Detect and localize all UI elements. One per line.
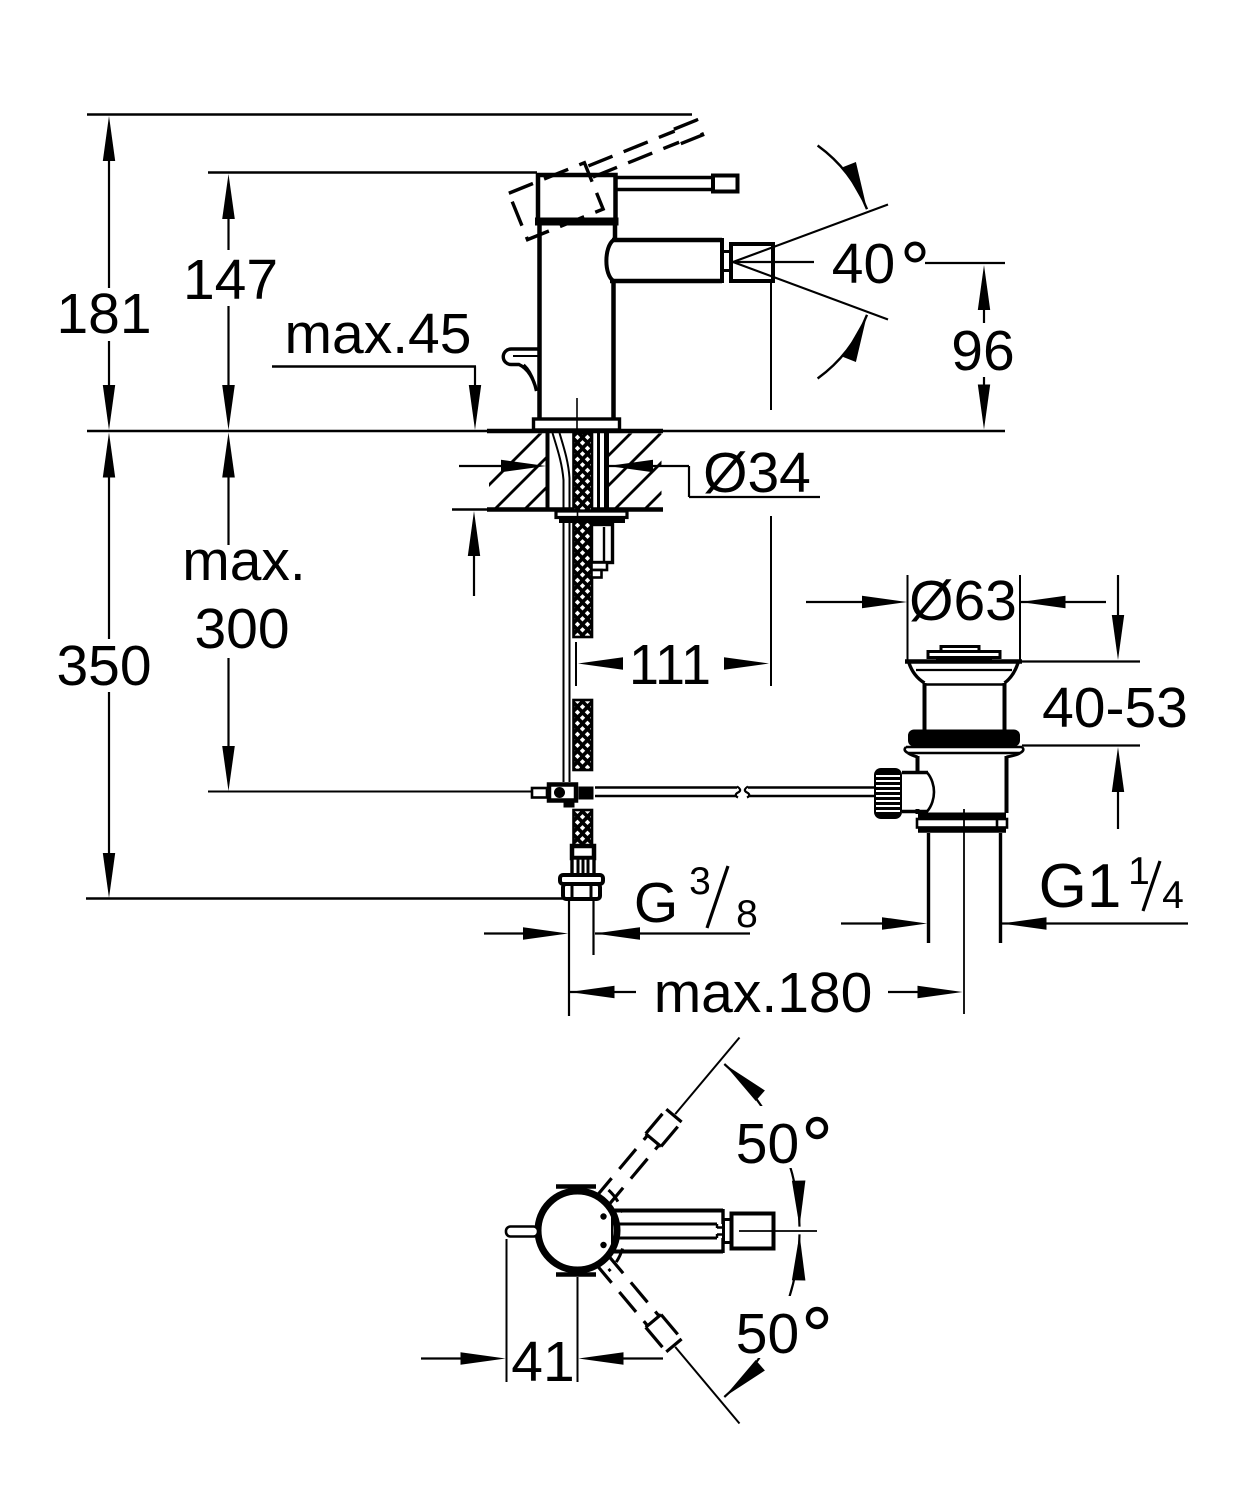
spout: [610, 238, 722, 283]
wire 147 reference line: [208, 171, 537, 173]
svg-text:4: 4: [1162, 874, 1184, 917]
hose ferrule: [572, 846, 594, 858]
svg-text:G1: G1: [1039, 852, 1122, 921]
aerator projection line: [770, 283, 772, 410]
drain lower bands: [917, 816, 1007, 831]
dimension 41: [421, 1239, 663, 1394]
deck clamping thickness arrow: [452, 510, 489, 597]
faucet centerline: [576, 398, 578, 431]
faucet cap (handle base): [535, 175, 619, 222]
dimension 350: [56, 433, 570, 899]
pop-up rod through deck: [553, 433, 570, 782]
dimension G1 1/4: [841, 850, 1188, 930]
50 degree label bottom: [726, 1296, 838, 1366]
svg-text:181: 181: [56, 282, 151, 346]
top view joint line: [611, 1212, 613, 1249]
svg-text:3: 3: [689, 860, 711, 903]
svg-text:96: 96: [951, 319, 1014, 383]
pull rod T-fitting: [532, 785, 594, 808]
svg-text:111: 111: [629, 633, 711, 697]
top view aerator neck: [724, 1220, 732, 1243]
top view dashed cap arcs: [609, 1190, 623, 1213]
svg-text:max.45: max.45: [285, 302, 472, 366]
hose ribbed collar: [572, 858, 594, 876]
wire top reference line (181 top): [87, 113, 692, 115]
top view centerline: [739, 1230, 817, 1232]
svg-text:350: 350: [56, 634, 151, 698]
dimension diameter 63: [806, 569, 1106, 660]
svg-text:50: 50: [736, 1112, 799, 1176]
svg-text:41: 41: [511, 1330, 574, 1394]
drain neck: [925, 683, 1005, 731]
dimension 40-53: [1013, 575, 1188, 829]
faucet base plate: [534, 419, 620, 430]
svg-text:max.: max.: [182, 529, 306, 593]
dimension max.45: [272, 302, 481, 430]
hose hex nut G3/8: [560, 875, 603, 899]
mounting nut: [556, 511, 627, 523]
svg-text:Ø34: Ø34: [703, 441, 811, 505]
drain flange: [905, 662, 1022, 685]
drain seal ring: [905, 730, 1024, 754]
rod guide block: [592, 525, 613, 578]
svg-text:50: 50: [736, 1302, 799, 1366]
drain tail pipe: [929, 809, 1001, 1014]
horizontal pull rod: [595, 787, 875, 798]
svg-text:147: 147: [183, 248, 278, 312]
aerator neck: [722, 252, 731, 271]
svg-text:300: 300: [194, 597, 289, 661]
50 degree label top: [726, 1106, 838, 1176]
dimension 96: [951, 265, 1014, 430]
drain body: [908, 753, 1020, 814]
pop-up rod knob on body: [503, 349, 539, 391]
40 degree arc arrows: [818, 146, 867, 379]
50 degree arcs with arrows: [724, 1064, 805, 1397]
dimension max.300: [182, 433, 533, 792]
deck surface line: [87, 430, 1005, 432]
dimension diameter 34: [459, 441, 820, 505]
dimension max.180: [570, 961, 963, 1025]
top view dashed lever up: [595, 1109, 682, 1208]
svg-text:40-53: 40-53: [1042, 676, 1188, 740]
top view pop-up rod pin: [506, 1227, 538, 1237]
hose end tube: [569, 901, 594, 1016]
deck cross-section with hatching: [462, 430, 754, 512]
drain push button: [928, 647, 1000, 662]
svg-text:8: 8: [736, 893, 758, 936]
dimension G3/8: [484, 860, 758, 940]
svg-text:G: G: [634, 871, 678, 935]
svg-text:40: 40: [832, 232, 895, 296]
svg-text:1: 1: [1128, 850, 1150, 893]
dashed handle (raised position): [509, 118, 715, 240]
top view spout: [614, 1209, 739, 1253]
svg-text:max.180: max.180: [654, 961, 873, 1025]
top view faucet body ring: [538, 1191, 617, 1270]
drain knob stem: [902, 773, 934, 812]
dimension 181: [56, 116, 151, 430]
dimension 147: [183, 174, 278, 430]
svg-text:Ø63: Ø63: [909, 569, 1017, 633]
aerator: [731, 244, 773, 281]
top view aerator: [732, 1214, 774, 1249]
top view cartridge dots: [600, 1213, 606, 1248]
braided supply hose: [574, 433, 593, 846]
top view body tabs: [556, 1187, 596, 1275]
dimension 111: [576, 633, 769, 697]
handle lever: [617, 176, 738, 192]
40 degree spray angle lines: [733, 205, 1005, 320]
faucet body: [540, 222, 616, 420]
top view dashed lever down: [595, 1253, 682, 1352]
40 degree label: [832, 232, 924, 296]
drain knurled knob: [874, 768, 902, 819]
